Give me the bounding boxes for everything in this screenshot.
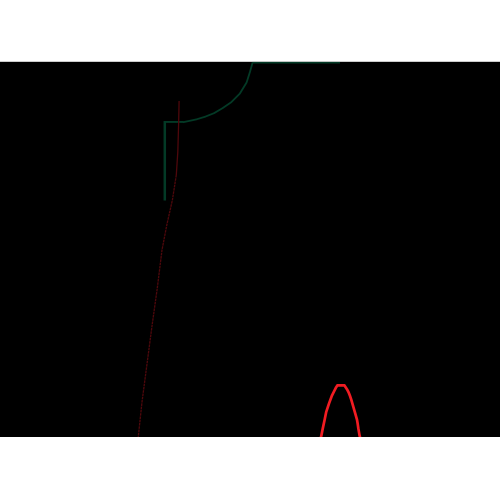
dark red long stroke: lower sloped part [138,175,176,438]
dark red long stroke: upper near-vertical part [176,101,179,175]
green stroke: top horizontal line [253,62,341,64]
green stroke: vertical line [164,121,167,201]
black canvas area (letterboxed image) [0,62,500,437]
green stroke: horizontal tail [164,121,184,123]
green stroke: descending arc [183,63,253,123]
bright red arch [321,385,360,437]
